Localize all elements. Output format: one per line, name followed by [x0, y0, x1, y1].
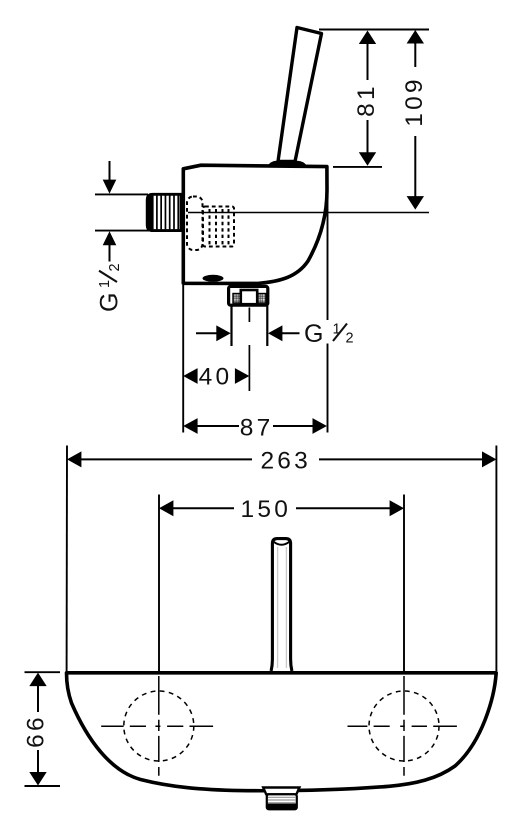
label G 1/2 (outlet)	[304, 320, 354, 348]
wire: 150 left extension down to plate	[158, 495, 160, 674]
dimension 81	[353, 31, 380, 166]
svg-text:G: G	[304, 320, 323, 348]
wire: 263 left extension down to plate corner	[66, 446, 68, 672]
wire: right extension line (body right edge to 87)	[327, 169, 329, 433]
aerator button (side view)	[203, 275, 224, 282]
dimension 109	[401, 30, 428, 210]
svg-text:G: G	[96, 293, 124, 312]
wire: 81 lower extension line	[333, 166, 382, 168]
handle base mound	[267, 161, 308, 167]
wire: 66 upper extension line	[25, 671, 61, 673]
dimension 87	[183, 414, 327, 441]
label G 1/2 (rotated, inlet)	[96, 263, 124, 312]
svg-text:66: 66	[23, 714, 50, 748]
handle (lever)	[278, 28, 322, 162]
svg-text:81: 81	[353, 83, 380, 117]
svg-text:40: 40	[199, 364, 233, 391]
threaded inlet G1/2	[146, 193, 181, 232]
outlet fitting nut (side view)	[229, 286, 268, 305]
wire: outlet centerline	[248, 308, 250, 392]
hole circle right (dashed)	[369, 691, 439, 761]
dimension 66	[23, 673, 50, 786]
dimension G1/2 inlet arrows	[103, 161, 117, 262]
svg-text:2: 2	[107, 263, 123, 271]
wire: top extension line from handle tip	[319, 29, 429, 31]
dimension 40	[183, 364, 249, 391]
wire: 263 right extension down to plate corner	[495, 446, 497, 672]
svg-text:2: 2	[346, 331, 354, 347]
wire: 66 lower extension line	[25, 785, 61, 787]
wire: inlet axis line extended to 109 dimension	[188, 212, 429, 214]
hole circle left (dashed)	[124, 691, 194, 761]
dimension 263	[67, 447, 496, 474]
svg-text:87: 87	[240, 414, 274, 441]
wire: outlet pipe walls	[230, 306, 232, 346]
wire: G1/2 inlet upper extension line	[95, 193, 148, 195]
centerlines right circle	[348, 725, 457, 727]
dimension 150	[159, 496, 404, 523]
bottom outlet nut with threads	[267, 794, 297, 809]
dimension G1/2 outlet	[196, 325, 300, 341]
svg-text:150: 150	[241, 496, 291, 523]
base plate outline (front view)	[67, 673, 497, 791]
svg-text:1: 1	[97, 280, 113, 288]
svg-text:263: 263	[260, 447, 310, 474]
cartridge hidden outline (dashed)	[187, 197, 234, 251]
svg-text:109: 109	[401, 76, 428, 126]
wire: 150 right extension down to plate	[403, 495, 405, 674]
mixer body outline	[183, 165, 327, 283]
bottom outlet collar	[263, 788, 299, 795]
spout tube	[271, 539, 292, 671]
centerlines left circle	[101, 725, 213, 727]
wire: left extension line (body left edge to 87)	[182, 285, 184, 433]
wire: G1/2 inlet lower extension line	[95, 230, 149, 232]
